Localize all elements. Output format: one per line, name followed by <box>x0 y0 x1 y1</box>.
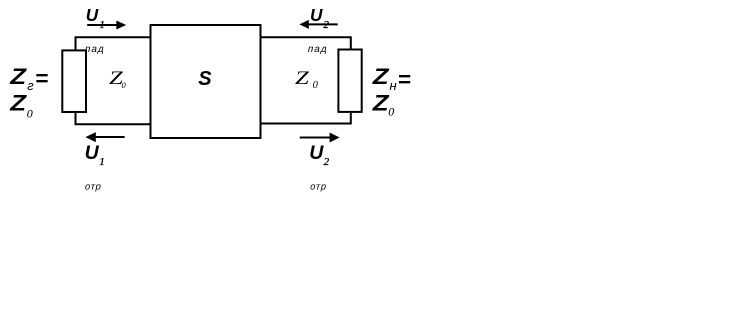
svg-text:Z: Z <box>372 90 390 115</box>
svg-text:U: U <box>85 142 100 164</box>
svg-text:Z: Z <box>9 64 27 89</box>
svg-text:н: н <box>390 78 397 93</box>
svg-text:=: = <box>398 67 411 92</box>
svg-text:г: г <box>27 78 34 93</box>
svg-text:0: 0 <box>388 105 394 119</box>
svg-text:Z: Z <box>9 90 27 115</box>
svg-text:U: U <box>309 142 324 164</box>
svg-text:0: 0 <box>27 107 33 121</box>
svg-text:U: U <box>310 5 323 25</box>
svg-text:0: 0 <box>122 80 127 90</box>
svg-text:Z: Z <box>372 64 390 89</box>
svg-text:U: U <box>86 5 99 25</box>
svg-text:0: 0 <box>313 80 319 91</box>
svg-text:=: = <box>35 66 48 91</box>
svg-text:отр: отр <box>309 181 328 192</box>
svg-text:отр: отр <box>84 181 103 192</box>
svg-text:2: 2 <box>324 156 330 168</box>
svg-text:S: S <box>198 68 212 90</box>
svg-text:1: 1 <box>99 156 105 168</box>
svg-text:2: 2 <box>323 19 329 31</box>
svg-text:пад: пад <box>307 44 329 55</box>
svg-text:Z: Z <box>295 68 309 89</box>
svg-text:1: 1 <box>99 19 105 31</box>
svg-text:пад: пад <box>84 44 106 55</box>
